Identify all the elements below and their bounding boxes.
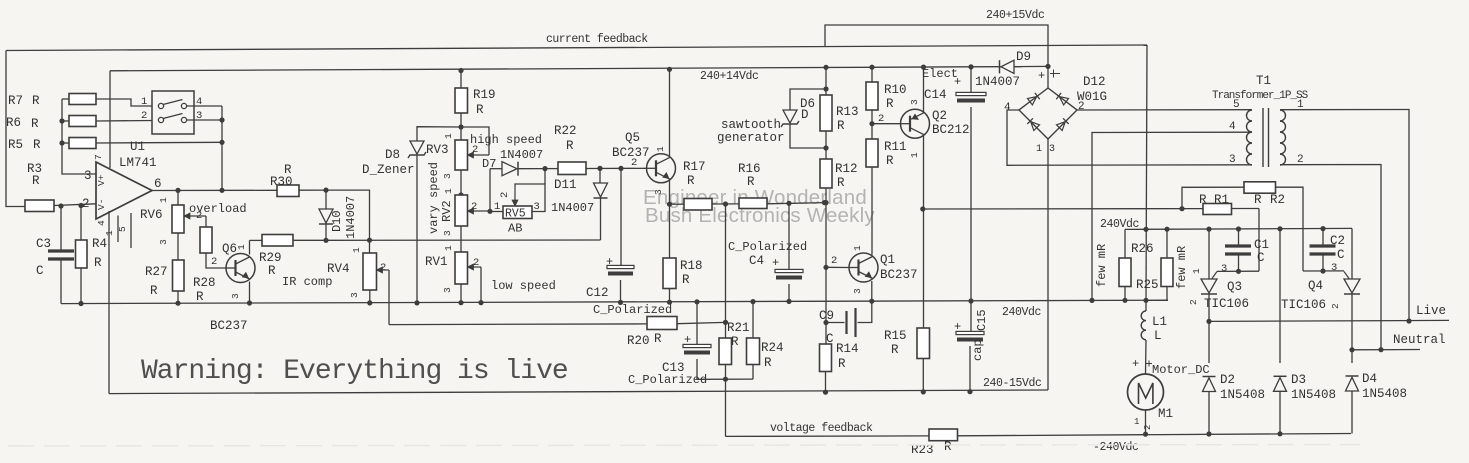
resistor R4: [80, 206, 82, 241]
junction R15 ground: [921, 389, 926, 394]
svg-text:R: R: [838, 357, 846, 371]
svg-text:3: 3: [1229, 154, 1236, 166]
wire Q4 gate row: [1303, 270, 1344, 272]
svg-text:R19: R19: [473, 88, 496, 102]
resistor R7: [62, 98, 69, 100]
svg-text:R13: R13: [836, 105, 859, 119]
resistor R14: [825, 323, 827, 345]
junction R4 ground: [78, 301, 83, 306]
svg-text:R: R: [687, 174, 695, 188]
svg-text:BC237: BC237: [210, 319, 248, 333]
svg-text:2: 2: [1078, 101, 1085, 113]
svg-text:4: 4: [96, 220, 107, 226]
capacitor C2: [1322, 229, 1324, 245]
svg-text:TIC106: TIC106: [1204, 297, 1249, 311]
svg-text:C2: C2: [1330, 234, 1345, 248]
junction C12 top: [618, 166, 623, 171]
transistor Q1 BC237: [849, 253, 878, 282]
svg-text:+: +: [772, 256, 779, 270]
potentiometer RV6 overload: [172, 205, 184, 233]
resistor R2: [1182, 187, 1244, 209]
wire inner-left vertical (op-amp V+ pin 7): [109, 71, 111, 168]
junction Q5 collector rail: [667, 67, 672, 72]
diode D10 1N4007: [325, 190, 327, 209]
resistor R20: [647, 317, 677, 330]
resistor R25 few mR: [1166, 229, 1168, 258]
wire high speed loop RV3: [461, 127, 489, 155]
wire transformer pin1 to Live: [1280, 110, 1409, 322]
svg-text:Motor_DC: Motor_DC: [1152, 363, 1210, 377]
junction C12 ground: [618, 300, 623, 305]
resistor R6: [62, 120, 69, 122]
svg-text:D_Zener: D_Zener: [362, 163, 415, 177]
svg-text:R: R: [150, 284, 158, 298]
svg-text:240-15Vdc: 240-15Vdc: [983, 377, 1042, 390]
junction C14/C15 ground rail: [968, 298, 973, 303]
svg-text:1N4007: 1N4007: [551, 201, 594, 215]
svg-text:R25: R25: [1136, 278, 1159, 292]
svg-text:current feedback: current feedback: [546, 33, 648, 46]
junction R14 ground: [823, 390, 828, 395]
junction Q2 base node: [869, 121, 874, 126]
junction L1 top: [1143, 298, 1148, 303]
svg-text:R: R: [747, 175, 755, 189]
svg-text:1N4007: 1N4007: [975, 75, 1020, 89]
wire R1 to Q3 gate network: [1258, 209, 1260, 272]
wire 240+15Vdc rail: [825, 25, 1048, 66]
resistor R5: [62, 142, 69, 144]
svg-text:D7: D7: [482, 157, 496, 171]
junction D3 top: [1277, 226, 1282, 231]
junction R18 ground: [667, 300, 672, 305]
junction Q2 collector rail: [921, 65, 926, 70]
svg-text:C3: C3: [36, 237, 51, 251]
junction R17-R16 to R21: [723, 201, 728, 206]
svg-text:3: 3: [442, 230, 453, 236]
capacitor C9: [826, 267, 845, 322]
svg-text:R: R: [566, 139, 574, 153]
wire R20 row from RV4 wiper: [389, 323, 647, 326]
junction C4 bottom rail: [786, 299, 791, 304]
resistor R22: [545, 168, 558, 170]
svg-text:Q2: Q2: [932, 109, 947, 123]
svg-text:6: 6: [154, 177, 162, 191]
svg-text:D11: D11: [554, 178, 577, 192]
svg-text:2: 2: [472, 144, 478, 156]
junction R16 end sawtooth node: [822, 200, 827, 205]
svg-text:Q6: Q6: [222, 242, 237, 256]
wire motor bottom: [1145, 410, 1147, 434]
svg-text:RV3: RV3: [426, 143, 449, 157]
junction D7 cathode node: [542, 166, 547, 171]
resistor R16: [739, 198, 767, 209]
wire RV6 wiper to R28: [185, 215, 206, 217]
junction Q1 base: [823, 265, 828, 270]
diode D6 zener: [790, 89, 826, 110]
junction Q5 emitter node: [667, 202, 672, 207]
wire Live: [1209, 320, 1449, 321]
svg-text:2: 2: [499, 192, 511, 198]
wire Q1 emitter to ground rail: [871, 281, 873, 301]
svg-text:R1: R1: [1214, 193, 1229, 207]
junction feedback pickup: [723, 377, 728, 382]
svg-text:1N4007: 1N4007: [500, 148, 543, 162]
svg-text:240+14Vdc: 240+14Vdc: [700, 70, 759, 83]
junction Q3 anode row: [1206, 227, 1211, 232]
wire bridge pin4 to transformer pin3: [1007, 110, 1252, 165]
resistor R29 and IR comp row: [250, 239, 263, 241]
svg-text:C4: C4: [749, 254, 764, 268]
junction C9 left: [823, 320, 828, 325]
junction R10 top rail: [869, 65, 874, 70]
resistor R19: [460, 71, 462, 89]
bridge diode bottom-right: [1056, 118, 1068, 130]
svg-text:LM741: LM741: [119, 156, 157, 170]
switch SW1 gain selector: [152, 91, 194, 134]
svg-text:3: 3: [442, 287, 453, 293]
svg-text:R: R: [731, 335, 739, 349]
svg-text:Q5: Q5: [625, 131, 640, 145]
svg-text:1: 1: [494, 201, 500, 213]
wire op-amp output: [152, 189, 277, 191]
svg-text:V+: V+: [96, 174, 107, 186]
svg-text:R11: R11: [884, 140, 907, 154]
junction D10 bottom: [323, 238, 328, 243]
svg-text:7: 7: [93, 154, 104, 160]
junction C13 top ground rail: [694, 299, 699, 304]
junction C2 bottom: [1320, 268, 1325, 273]
svg-text:R27: R27: [145, 265, 168, 279]
thyristor Q4 TIC106: [1351, 228, 1353, 279]
svg-text:Q4: Q4: [1308, 279, 1323, 293]
wire Q1 collector from R11: [871, 186, 873, 255]
svg-text:R12: R12: [835, 162, 858, 176]
diode D8 zener: [417, 127, 461, 141]
svg-text:240Vdc: 240Vdc: [1100, 218, 1140, 231]
svg-text:C_Polarized: C_Polarized: [593, 303, 672, 317]
wire transformer pin2 to Neutral: [1280, 165, 1381, 350]
wire 240+14Vdc rail (D9 cathode side): [1014, 65, 1048, 67]
wire -15V rail (inner bottom): [109, 390, 1048, 394]
junction D11 top: [597, 166, 602, 171]
svg-text:D8: D8: [385, 148, 400, 162]
wire R21/R24/C13 bottom row: [697, 378, 753, 380]
svg-text:R: R: [891, 343, 899, 357]
bridge diode bottom-left: [1027, 118, 1039, 130]
diode D9 1N4007: [1001, 60, 1014, 73]
resistor R23: [929, 429, 958, 441]
svg-text:cap: cap: [971, 339, 985, 361]
wire RV1 wiper to ground: [469, 266, 482, 268]
svg-text:D3: D3: [1291, 373, 1306, 387]
capacitor C14 electrolytic: [970, 67, 972, 94]
svg-text:R26: R26: [1131, 242, 1154, 256]
svg-text:R10: R10: [884, 83, 907, 97]
svg-text:R: R: [764, 356, 772, 370]
wire RV2 wiper to D7/RV5 node: [469, 210, 491, 212]
diode D11 1N4007: [599, 168, 601, 183]
junction RV1 ground: [458, 300, 463, 305]
wire bridge pin2 to transformer pin5: [1077, 109, 1252, 111]
junction R3 to R4: [78, 203, 83, 208]
faint scanner line bottom: [8, 445, 1360, 447]
svg-text:V-: V-: [96, 199, 107, 210]
svg-text:R: R: [1199, 193, 1207, 207]
wire RV6 top: [177, 190, 179, 205]
resistor R21: [725, 322, 727, 338]
svg-text:R30: R30: [270, 175, 293, 189]
junction R26 ground: [1122, 298, 1127, 303]
resistor R26 few mR: [1124, 229, 1126, 258]
resistor R11: [866, 139, 878, 167]
bridge diode top-right: [1056, 93, 1068, 105]
wire transformer pin4 center tap: [1092, 132, 1252, 300]
wire RV5 node to R22 row: [544, 169, 546, 184]
svg-text:L1: L1: [1152, 315, 1167, 329]
junction Q1 emitter ground: [869, 299, 874, 304]
junction D6 top: [823, 86, 828, 91]
svg-text:RV5: RV5: [505, 208, 526, 221]
svg-text:1: 1: [1134, 417, 1139, 427]
wire Q6 emitter: [249, 282, 251, 304]
wire Q6 collector: [249, 240, 251, 254]
resistor R28: [200, 227, 212, 253]
junction RV2 top: [458, 192, 463, 197]
wire Q2 collector to rail: [923, 67, 925, 113]
wire Q5 emitter: [669, 180, 671, 205]
junction R13 top rail: [823, 65, 828, 70]
wire Q1 base column from R12: [826, 266, 849, 268]
svg-text:C_Polarized: C_Polarized: [728, 240, 807, 254]
svg-text:4: 4: [1229, 121, 1236, 133]
svg-text:3: 3: [1049, 144, 1055, 155]
svg-text:vary speed: vary speed: [427, 162, 441, 234]
svg-text:1: 1: [909, 152, 920, 158]
diode D4 1N5408: [1351, 350, 1353, 363]
svg-text:3: 3: [84, 169, 92, 183]
svg-text:C: C: [1257, 251, 1265, 265]
svg-text:BC212: BC212: [932, 123, 970, 137]
svg-text:C_Polarized: C_Polarized: [628, 373, 707, 387]
svg-text:C: C: [36, 264, 44, 278]
svg-text:D10: D10: [330, 210, 344, 232]
wire down to voltage feedback row: [725, 379, 727, 436]
svg-text:1: 1: [1191, 268, 1202, 274]
svg-text:+: +: [1038, 69, 1045, 83]
junction R12 to sawtooth row: [823, 200, 828, 205]
inductor L1: [1145, 300, 1147, 311]
wire voltage feedback / -240Vdc rail: [726, 435, 930, 438]
op-amp pins 1 and 5: [117, 216, 119, 243]
svg-text:R29: R29: [259, 251, 282, 265]
svg-text:2: 2: [631, 157, 637, 169]
svg-text:1: 1: [443, 245, 454, 251]
junction pin4 ground rail: [1089, 298, 1094, 303]
svg-text:3: 3: [230, 293, 241, 299]
junction R6 left: [59, 118, 64, 123]
junction T1 pin1 Live: [1406, 318, 1411, 323]
svg-text:R: R: [886, 97, 894, 111]
svg-text:U1: U1: [130, 140, 145, 154]
svg-text:R2: R2: [1270, 193, 1285, 207]
svg-text:1N5408: 1N5408: [1362, 387, 1407, 401]
svg-text:R24: R24: [761, 341, 784, 355]
svg-text:Q3: Q3: [1227, 280, 1242, 294]
diode D2 1N5408: [1208, 321, 1210, 363]
resistor R30: [277, 185, 299, 197]
junction D2 bottom: [1206, 431, 1211, 436]
transistor Q6 BC237: [226, 254, 255, 283]
resistor R10: [871, 67, 873, 82]
svg-text:+: +: [954, 75, 961, 89]
wire RV2 wiper up to D7 anode: [489, 169, 491, 212]
svg-text:Warning: Everything is live: Warning: Everything is live: [141, 356, 568, 387]
transistor Q2 BC212 pnp: [901, 109, 930, 138]
svg-text:R: R: [837, 119, 845, 133]
svg-text:R15: R15: [884, 329, 907, 343]
junction R27 ground: [175, 301, 180, 306]
wire RV2 to RV1: [460, 226, 462, 252]
wire RV3 to RV2: [460, 170, 462, 195]
svg-text:3: 3: [349, 292, 360, 298]
thyristor Q3 TIC106: [1208, 229, 1210, 279]
resistor R12: [820, 159, 832, 188]
svg-text:2: 2: [1330, 303, 1341, 309]
potentiometer RV3 high speed: [460, 127, 462, 140]
wire node A to RV4 pin1 column: [326, 190, 370, 253]
svg-text:R: R: [654, 332, 662, 346]
svg-text:+: +: [1132, 357, 1139, 371]
junction D6 bottom: [823, 145, 828, 150]
wire switch outputs to feedback node: [187, 105, 223, 107]
svg-text:+: +: [684, 333, 691, 347]
junction motor bottom: [1143, 432, 1148, 437]
wire Q2 emitter down to R15 / R1 row: [923, 135, 925, 328]
svg-text:Neutral: Neutral: [1393, 333, 1446, 347]
junction D8 ground: [414, 300, 419, 305]
svg-text:1N5408: 1N5408: [1291, 388, 1336, 402]
svg-text:R: R: [1254, 193, 1262, 207]
svg-text:L: L: [1154, 329, 1162, 343]
junction L1 rail row: [1143, 227, 1148, 232]
resistor R1: [1203, 204, 1232, 215]
svg-text:D12: D12: [1083, 75, 1106, 89]
svg-text:R: R: [837, 176, 845, 190]
junction R19 bottom: [458, 124, 463, 129]
junction C2 top: [1320, 226, 1325, 231]
svg-text:T1: T1: [1256, 74, 1271, 88]
wire R17/R16 node down to R21: [725, 204, 727, 322]
resistor R24: [752, 302, 754, 338]
svg-text:C14: C14: [924, 88, 947, 102]
resistor R3: [24, 205, 26, 208]
potentiometer RV1 low speed: [455, 252, 468, 284]
junction RV2 wiper node: [487, 209, 492, 214]
svg-text:C15: C15: [975, 309, 989, 331]
svg-text:1N5408: 1N5408: [1220, 388, 1265, 402]
wire Q5 collector to +14 rail: [669, 69, 671, 157]
diode D7 1N4007: [490, 168, 502, 170]
junction R19 top rail: [458, 68, 463, 73]
wire RV4 wiper to R20 row: [378, 269, 390, 271]
svg-text:TIC106: TIC106: [1281, 298, 1326, 312]
bridge rectifier D12 W01G: [1019, 88, 1077, 139]
svg-text:1: 1: [158, 197, 169, 203]
wire ground rail (240Vdc long bottom rail): [61, 300, 1168, 303]
svg-text:1: 1: [236, 244, 247, 250]
svg-text:Live: Live: [1416, 304, 1446, 318]
svg-text:R7: R7: [8, 94, 23, 108]
capacitor C13 polarized: [696, 302, 698, 346]
svg-text:C: C: [1337, 248, 1345, 262]
svg-text:RV6: RV6: [140, 208, 163, 222]
svg-text:C1: C1: [1254, 238, 1269, 252]
svg-text:R16: R16: [738, 162, 761, 176]
capacitor C3: [60, 206, 62, 250]
svg-text:2: 2: [1143, 425, 1153, 430]
svg-text:240+15Vdc: 240+15Vdc: [986, 9, 1045, 22]
junction Q3 cathode Live: [1206, 319, 1211, 324]
svg-text:D2: D2: [1220, 373, 1235, 387]
wire 240Vdc top-right row: [1125, 228, 1352, 229]
junction Q6 emitter ground: [247, 300, 252, 305]
svg-text:1: 1: [1036, 144, 1042, 155]
junction C14 top rail: [968, 64, 973, 69]
svg-text:+: +: [954, 320, 961, 334]
svg-text:3: 3: [442, 173, 453, 179]
junction R3 to C3: [58, 203, 63, 208]
junction C1 top: [1236, 226, 1241, 231]
svg-text:1: 1: [443, 188, 454, 194]
svg-text:5: 5: [1233, 99, 1240, 111]
junction C4 top: [786, 201, 791, 206]
svg-text:R18: R18: [680, 259, 703, 273]
svg-text:+: +: [606, 255, 613, 269]
svg-text:low speed: low speed: [491, 279, 556, 293]
svg-text:BC237: BC237: [880, 268, 918, 282]
svg-text:1: 1: [141, 96, 147, 108]
svg-text:sawtooth: sawtooth: [721, 118, 781, 132]
svg-text:R: R: [476, 103, 484, 117]
junction RV4 pin1 row: [367, 238, 372, 243]
svg-text:2: 2: [831, 255, 837, 267]
transistor Q5 BC237: [647, 154, 676, 183]
wire Q3 gate row: [1217, 270, 1259, 272]
junction Q4 cathode Neutral: [1349, 347, 1354, 352]
junction R30 out node A: [323, 188, 328, 193]
svg-text:R14: R14: [836, 342, 859, 356]
wire Q2 base row: [872, 123, 901, 125]
resistor R15: [917, 328, 930, 359]
wire bridge bottom to -15 rail corner: [1047, 139, 1049, 390]
wire RV5 wiper loop: [514, 186, 516, 205]
op-amp U1 LM741: [96, 162, 152, 219]
svg-text:1: 1: [443, 133, 454, 139]
svg-text:R17: R17: [683, 160, 706, 174]
svg-text:2: 2: [211, 256, 217, 268]
svg-text:R: R: [944, 440, 952, 454]
svg-text:2: 2: [141, 110, 147, 122]
junction D9 cathode node: [1045, 64, 1050, 69]
svg-text:1: 1: [351, 247, 362, 253]
svg-text:3: 3: [653, 189, 664, 195]
junction R20-R21 node: [723, 320, 728, 325]
svg-text:3: 3: [852, 288, 863, 294]
capacitor C4 polarized: [788, 203, 790, 270]
junction R1 row start: [920, 206, 925, 211]
diode D3 1N5408: [1279, 229, 1281, 363]
potentiometer RV4 IR comp: [363, 253, 377, 290]
